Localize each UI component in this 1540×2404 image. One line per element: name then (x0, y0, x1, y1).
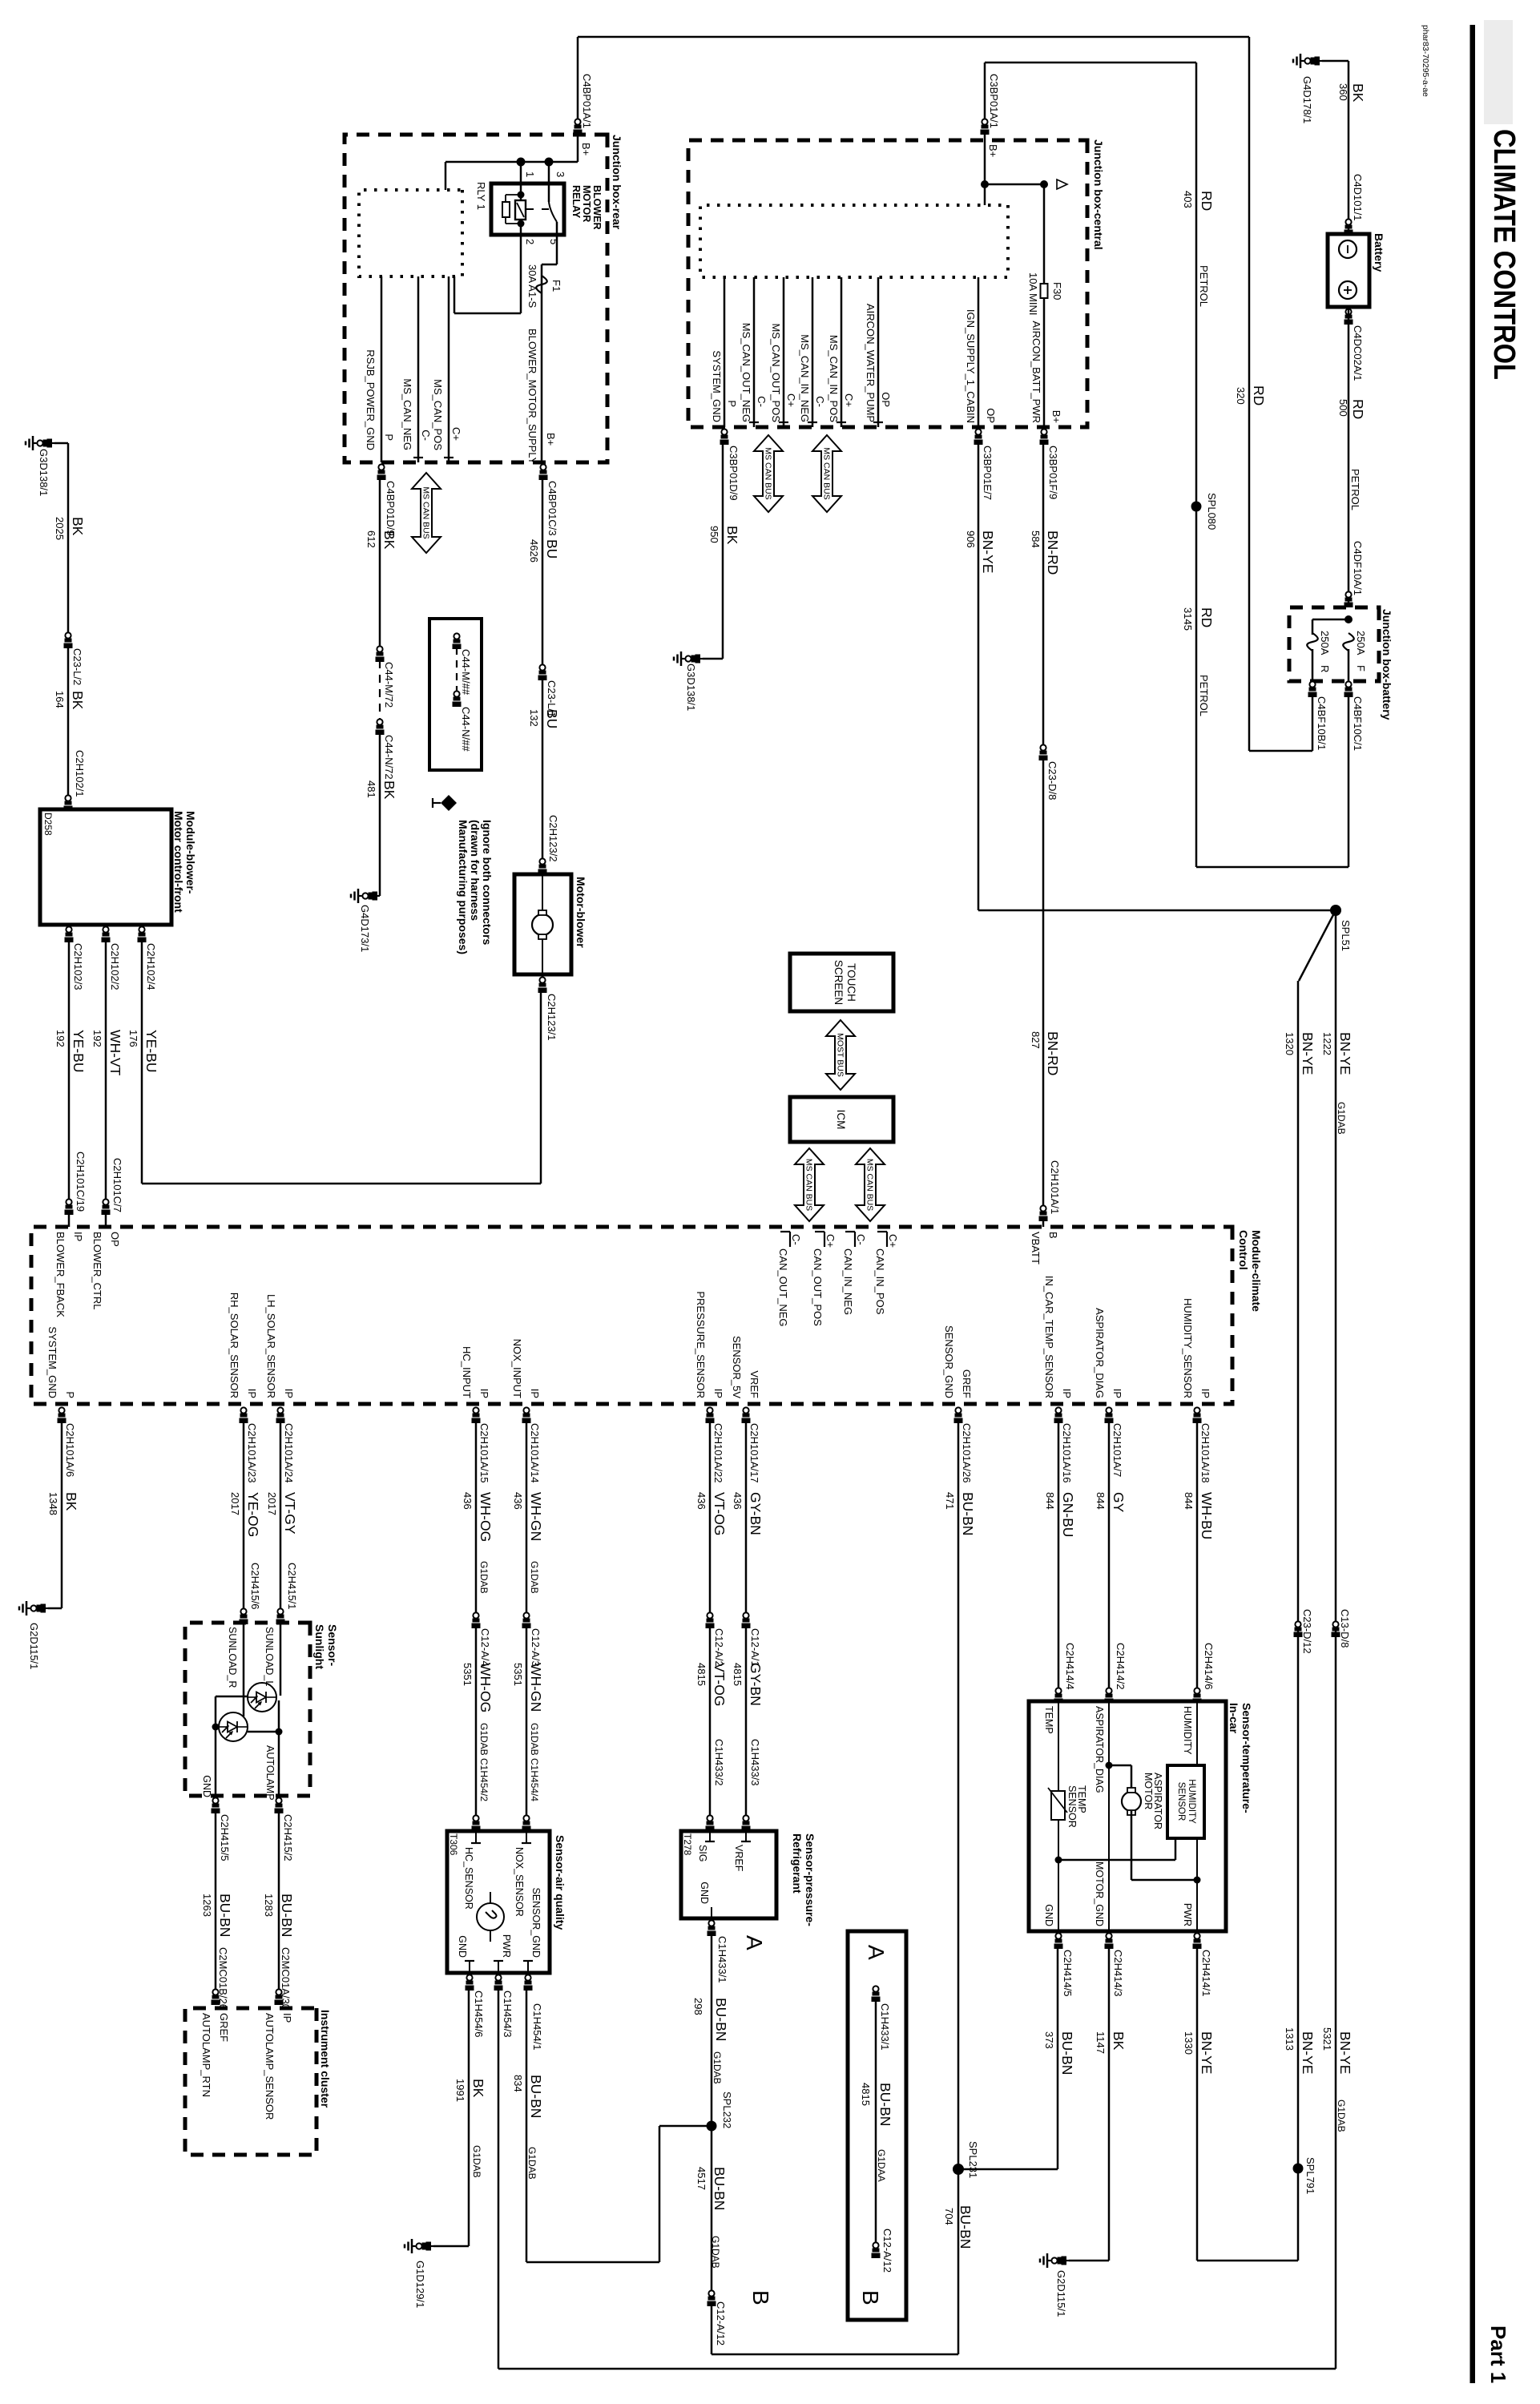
relay coil (520, 162, 522, 200)
connector C4BF10B/1 (1308, 681, 1317, 697)
svg-text:TEMP: TEMP (1043, 1706, 1054, 1734)
wire VT-GY 2017 (LH solar) (280, 1422, 282, 1608)
svg-text:PRESSURE_SENSOR: PRESSURE_SENSOR (695, 1291, 707, 1398)
sensor-sunlight (185, 1623, 310, 1796)
node relay pin3 feed (545, 158, 554, 167)
connector C3BP01D/9 (720, 429, 729, 445)
svg-text:RSJB_POWER_GND: RSJB_POWER_GND (365, 349, 377, 450)
svg-text:C2H102/3: C2H102/3 (72, 943, 84, 990)
svg-text:YE-OG: YE-OG (245, 1492, 261, 1537)
svg-text:SENSOR_5V: SENSOR_5V (731, 1336, 743, 1398)
pin NOX_SENSOR (526, 1831, 527, 1843)
svg-text:RD: RD (1199, 607, 1215, 627)
svg-text:298: 298 (692, 1998, 704, 2015)
svg-text:BLOWER_CTRL: BLOWER_CTRL (91, 1232, 103, 1310)
relay switch (548, 184, 550, 202)
svg-text:BLOWER_MOTOR_SUPPLY: BLOWER_MOTOR_SUPPLY (526, 329, 538, 465)
svg-text:IP: IP (281, 2013, 293, 2023)
svg-text:BK: BK (724, 526, 740, 545)
svg-text:VT-GY: VT-GY (282, 1492, 298, 1535)
svg-text:G4D173/1: G4D173/1 (359, 905, 371, 952)
svg-text:950: 950 (708, 526, 720, 543)
svg-text:132: 132 (528, 709, 540, 727)
svg-text:2: 2 (524, 239, 536, 244)
svg-text:C2H123/2: C2H123/2 (547, 815, 559, 862)
svg-text:CAN_IN_NEG: CAN_IN_NEG (842, 1248, 854, 1315)
connector C4DF10A/1 (1344, 591, 1353, 607)
svg-text:G1DAB C1H454/2: G1DAB C1H454/2 (478, 1723, 490, 1801)
node junction inside box-battery (1344, 615, 1353, 623)
svg-text:C4DF10A/1: C4DF10A/1 (1352, 541, 1364, 595)
svg-text:C2H101A/18: C2H101A/18 (1199, 1423, 1211, 1482)
wire WH-GN 436 (526, 1422, 528, 1612)
ground G4D173/1 (351, 889, 380, 903)
pin GND (refrigerant) (711, 1907, 712, 1918)
svg-text:B+: B+ (580, 143, 592, 155)
svg-text:BU-BN: BU-BN (1059, 2031, 1075, 2075)
module-climate control (31, 1227, 1232, 1404)
svg-text:VBATT: VBATT (1030, 1232, 1042, 1265)
svg-text:GND: GND (201, 1775, 212, 1797)
svg-text:GND: GND (1043, 1904, 1054, 1926)
svg-text:IN_CAR_TEMP_SENSOR: IN_CAR_TEMP_SENSOR (1043, 1276, 1055, 1398)
svg-text:F30: F30 (1051, 282, 1063, 300)
svg-text:C3BP01E/7: C3BP01E/7 (982, 446, 994, 500)
svg-text:5351: 5351 (512, 1663, 524, 1686)
wire BK 950 to ground (722, 443, 724, 659)
svg-text:C23-D/12: C23-D/12 (1301, 1609, 1313, 1654)
svg-text:P: P (383, 434, 395, 441)
legend box ignore both connectors (429, 619, 482, 770)
fuse F 250A (1343, 633, 1354, 651)
pin MS_CAN_OUT_NEG C- (753, 277, 756, 427)
svg-text:360: 360 (1337, 83, 1349, 101)
connector C4D101/1 (1344, 219, 1353, 235)
svg-text:LH_SOLAR_SENSOR: LH_SOLAR_SENSOR (265, 1294, 277, 1398)
svg-text:IP: IP (529, 1389, 541, 1398)
svg-text:MS_CAN_OUT_POS: MS_CAN_OUT_POS (770, 323, 782, 422)
svg-text:C3BP01A/1: C3BP01A/1 (988, 74, 1000, 128)
connector C4BF10C/1 (1344, 681, 1353, 697)
svg-text:ASPIRATOR_DIAG: ASPIRATOR_DIAG (1094, 1706, 1105, 1793)
connector C12-A/12 (view) (872, 2242, 881, 2258)
svg-text:MOST BUS: MOST BUS (836, 1033, 845, 1077)
connector C44-N/72 (376, 719, 385, 735)
svg-text:IP: IP (1061, 1389, 1073, 1398)
svg-text:WH-OG: WH-OG (478, 1663, 494, 1712)
svg-text:481: 481 (365, 780, 377, 798)
svg-text:BU-BN: BU-BN (713, 1998, 729, 2041)
connector C3BP01E/7 (974, 429, 983, 445)
svg-text:IP: IP (478, 1389, 490, 1398)
wire AUTOLAMP (278, 1700, 280, 1796)
svg-text:AUTOLAMP: AUTOLAMP (264, 1745, 276, 1801)
svg-text:C4BP01C/3: C4BP01C/3 (546, 481, 558, 536)
svg-text:SPL080: SPL080 (1206, 493, 1218, 530)
svg-text:C1H433/1: C1H433/1 (716, 1936, 728, 1983)
svg-text:SENSOR_GND: SENSOR_GND (530, 1887, 542, 1958)
svg-text:C3BP01D/9: C3BP01D/9 (728, 446, 740, 501)
svg-text:C+: C+ (450, 427, 462, 441)
svg-text:5351: 5351 (462, 1663, 474, 1686)
svg-text:YE-BU: YE-BU (143, 1030, 159, 1072)
svg-text:C2H101A/7: C2H101A/7 (1111, 1423, 1123, 1477)
svg-text:A: A (742, 1935, 767, 1950)
svg-text:Sensor-: Sensor- (326, 1624, 339, 1666)
svg-text:T278: T278 (682, 1833, 693, 1856)
internal module (dotted) of junction box-rear (359, 190, 462, 276)
svg-text:SPL51: SPL51 (1340, 920, 1352, 951)
svg-text:1: 1 (524, 171, 536, 177)
svg-text:C12-A/2: C12-A/2 (713, 1628, 725, 1667)
pin RSJB_POWER_GND P (381, 276, 383, 462)
svg-text:SUNLOAD_L: SUNLOAD_L (264, 1627, 275, 1686)
wire BK 360 battery negative (1348, 61, 1350, 234)
svg-text:C2H101A/23: C2H101A/23 (246, 1423, 258, 1482)
wire BN-YE 1330 (1196, 1947, 1199, 2261)
pin CAN_OUT_NEG C- (789, 1232, 791, 1247)
svg-text:MS_CAN_OUT_NEG: MS_CAN_OUT_NEG (740, 323, 752, 422)
svg-text:C1H454/1: C1H454/1 (531, 2003, 543, 2051)
svg-text:4626: 4626 (528, 539, 540, 563)
humidity sensor (1196, 1701, 1198, 1765)
svg-text:TOUCH: TOUCH (845, 963, 857, 1002)
svg-text:VT-OG: VT-OG (712, 1492, 728, 1535)
wire YE-OG 2017 (RH solar) (243, 1422, 245, 1608)
svg-text:704: 704 (943, 2208, 955, 2225)
node relay pin1 feed (517, 158, 526, 167)
wire PWR to BN-YE 5321 (498, 1989, 500, 2369)
svg-text:176: 176 (127, 1030, 139, 1047)
svg-text:C1H433/2: C1H433/2 (713, 1739, 725, 1786)
svg-text:C12-A/12: C12-A/12 (715, 2301, 727, 2346)
svg-text:HUMIDITY_SENSOR: HUMIDITY_SENSOR (1182, 1298, 1194, 1398)
svg-text:G1DAB: G1DAB (529, 1561, 540, 1594)
svg-text:WH-OG: WH-OG (478, 1492, 494, 1542)
junction box-battery (1289, 607, 1379, 681)
svg-text:C+: C+ (824, 1234, 837, 1248)
svg-text:SIG: SIG (697, 1845, 708, 1862)
wire GY-BN 436 (745, 1422, 748, 1612)
arrow B+ feed (1057, 179, 1067, 189)
svg-text:F1: F1 (550, 280, 562, 292)
wire BK 1991 to ground G1D129/1 (468, 1989, 470, 2246)
wire BK 1147 to ground G2D115/1 (1108, 1947, 1111, 2261)
ground G3D138/1 (blower) (26, 436, 54, 450)
svg-text:SPL232: SPL232 (721, 2091, 733, 2128)
svg-text:C4D101/1: C4D101/1 (1352, 174, 1364, 221)
svg-text:SPL231: SPL231 (967, 2141, 979, 2178)
svg-text:G2D115/1: G2D115/1 (1055, 2270, 1067, 2317)
relay RLY 1 BLOWER MOTOR RELAY (491, 184, 564, 235)
connector C23-D/12 (1294, 1621, 1303, 1637)
bus arrow MS CAN BUS (ICM in) (795, 1148, 824, 1221)
connector C2H415/2 (275, 1797, 284, 1813)
wire BK 164 (67, 647, 70, 795)
svg-text:584: 584 (1030, 530, 1042, 548)
pin AIRCON_WATER_PUMP (877, 277, 880, 427)
wire BU 4626 (542, 478, 544, 664)
svg-text:ASPIRATOR_DIAG: ASPIRATOR_DIAG (1094, 1308, 1106, 1398)
svg-text:C-: C- (756, 396, 768, 407)
svg-text:Sunlight: Sunlight (313, 1624, 326, 1669)
svg-text:436: 436 (462, 1492, 474, 1510)
svg-text:C2H414/6: C2H414/6 (1203, 1643, 1215, 1690)
svg-text:C4BF10C/1: C4BF10C/1 (1352, 696, 1364, 751)
svg-text:A: A (864, 1945, 889, 1960)
bus arrow MS CAN BUS (central in) (812, 435, 841, 512)
svg-text:VT-OG: VT-OG (712, 1663, 728, 1706)
svg-text:C2H102/4: C2H102/4 (145, 943, 157, 990)
svg-text:1313: 1313 (1284, 2027, 1296, 2051)
wire relay pin2 to internal module (520, 235, 522, 313)
svg-text:MS CAN BUS: MS CAN BUS (764, 447, 773, 499)
svg-text:PETROL: PETROL (1198, 675, 1210, 716)
svg-text:C2H414/5: C2H414/5 (1062, 1950, 1074, 1997)
svg-text:AUTOLAMP_SENSOR: AUTOLAMP_SENSOR (264, 2013, 276, 2120)
svg-text:RD: RD (1350, 399, 1366, 419)
wire BU-BN 373 (1057, 1947, 1059, 2169)
svg-text:Module-climate: Module-climate (1250, 1230, 1263, 1312)
fuse R 250A (1307, 633, 1318, 651)
svg-text:G1DAB C1H454/4: G1DAB C1H454/4 (529, 1723, 540, 1801)
connector C1H433/1 (view) (872, 1986, 881, 2002)
svg-text:WH-VT: WH-VT (107, 1030, 123, 1076)
svg-text:BN-YE: BN-YE (1337, 1032, 1353, 1075)
svg-text:3: 3 (554, 171, 566, 177)
svg-text:Motor control-front: Motor control-front (172, 811, 185, 913)
ICM (790, 1097, 893, 1142)
svg-text:Motor-blower: Motor-blower (574, 877, 587, 948)
svg-text:C1H433/3: C1H433/3 (749, 1739, 761, 1786)
svg-text:SYSTEM_GND: SYSTEM_GND (711, 350, 723, 422)
svg-text:1263: 1263 (201, 1894, 213, 1917)
svg-text:844: 844 (1044, 1492, 1056, 1510)
connector C3BP01A/1 (981, 119, 990, 135)
svg-text:AIRCON_BATT_PWR: AIRCON_BATT_PWR (1030, 321, 1042, 423)
svg-text:PWR: PWR (1182, 1903, 1193, 1926)
svg-text:PETROL: PETROL (1198, 265, 1210, 307)
splice SPL791 (1293, 2164, 1304, 2174)
pin C2H102/3 (65, 926, 74, 942)
svg-text:B+: B+ (545, 433, 557, 446)
pin IGN_SUPPLY_1_CABIN (978, 277, 980, 427)
svg-text:BK: BK (381, 780, 397, 800)
svg-text:Sensor-air quality: Sensor-air quality (554, 1835, 566, 1930)
svg-text:1991: 1991 (454, 2079, 466, 2102)
svg-text:BLOWER_FBACK: BLOWER_FBACK (54, 1232, 67, 1317)
svg-text:B+: B+ (987, 144, 999, 157)
svg-text:BK: BK (70, 691, 86, 710)
svg-text:403: 403 (1182, 191, 1194, 208)
connector C2H102/1 (64, 795, 73, 811)
svg-text:1348: 1348 (47, 1492, 59, 1515)
svg-text:C44-N/##: C44-N/## (460, 707, 472, 752)
svg-text:VREF: VREF (748, 1370, 760, 1398)
svg-text:C2H102/2: C2H102/2 (109, 943, 121, 990)
connector view box A-B (848, 1931, 906, 2320)
svg-text:CAN_IN_POS: CAN_IN_POS (874, 1248, 886, 1315)
instrument cluster (185, 2008, 316, 2155)
svg-text:C23-D/8: C23-D/8 (1046, 761, 1058, 800)
svg-text:SENSOR: SENSOR (1176, 1782, 1186, 1821)
svg-text:192: 192 (54, 1030, 67, 1047)
svg-text:BU-BN: BU-BN (528, 2075, 544, 2118)
wire BN-YE 1222 / BN-YE 5321 G1DAB (1335, 910, 1337, 2369)
svg-text:G3D138/1: G3D138/1 (685, 664, 697, 711)
svg-text:GND: GND (699, 1882, 710, 1904)
svg-text:G1DAB: G1DAB (1336, 2099, 1347, 2132)
link BN-YE 1313 to BN-YE 1330 (1197, 2260, 1298, 2262)
svg-text:G4D178/1: G4D178/1 (1301, 76, 1313, 123)
svg-text:IP: IP (712, 1389, 724, 1398)
wire BU-BN 834 (526, 1989, 528, 2262)
svg-text:C4DC02A/1: C4DC02A/1 (1352, 325, 1364, 381)
bus arrow MOST BUS (826, 1020, 855, 1090)
svg-text:192: 192 (91, 1030, 103, 1047)
svg-text:MOTOR: MOTOR (581, 185, 592, 222)
svg-text:C2H414/4: C2H414/4 (1064, 1643, 1076, 1690)
svg-text:C2H101A/26: C2H101A/26 (961, 1423, 973, 1482)
wire RD 403 / RD 3145 PETROL (1195, 63, 1198, 867)
svg-text:R: R (1319, 665, 1331, 672)
svg-text:In-car: In-car (1228, 1703, 1240, 1734)
wire RD 500 battery positive (1348, 307, 1350, 607)
svg-text:SENSOR: SENSOR (1066, 1785, 1078, 1828)
svg-text:G1DAB: G1DAB (712, 2051, 723, 2084)
connector C4DC02A/1 (1344, 309, 1353, 325)
wire AIRCON_BATT_PWR with fuse F30 (1043, 184, 1046, 427)
wire BK 2025 (54, 442, 68, 445)
svg-text:3145: 3145 (1182, 607, 1194, 631)
svg-text:436: 436 (732, 1492, 744, 1510)
svg-text:RELAY: RELAY (570, 185, 582, 219)
svg-text:Refrigerant: Refrigerant (791, 1833, 804, 1894)
svg-text:C2H101C/7: C2H101C/7 (111, 1158, 123, 1212)
svg-text:HUMIDITY: HUMIDITY (1182, 1706, 1193, 1755)
connector C2H101C/7 (102, 1199, 111, 1215)
junction box-central (688, 140, 1087, 427)
svg-text:1222: 1222 (1321, 1032, 1333, 1055)
node B+ tee (981, 180, 989, 188)
svg-text:844: 844 (1095, 1492, 1107, 1510)
wire YE-BU 176 (141, 941, 143, 1184)
svg-text:GREF: GREF (961, 1369, 973, 1398)
node F30 tee (1040, 180, 1048, 188)
svg-text:MOTOR: MOTOR (1143, 1773, 1154, 1809)
svg-text:BN-YE: BN-YE (1337, 2031, 1353, 2074)
pin C2H102/4 (138, 926, 147, 942)
wire return to sensor-air quality PWR (498, 2368, 1336, 2370)
svg-text:G1DAB: G1DAB (478, 1561, 490, 1594)
svg-text:T306: T306 (448, 1833, 459, 1856)
svg-text:WH-GN: WH-GN (528, 1663, 544, 1712)
wire BK 481 to ground (379, 733, 381, 896)
svg-text:Module-blower-: Module-blower- (184, 811, 197, 894)
svg-text:IP: IP (283, 1389, 295, 1398)
svg-text:C2H414/1: C2H414/1 (1200, 1950, 1212, 1997)
svg-text:B+: B+ (1050, 410, 1062, 423)
svg-text:CLIMATE CONTROL: CLIMATE CONTROL (1487, 129, 1521, 380)
wire BU-BN 298 (711, 1934, 713, 2126)
svg-text:C+: C+ (887, 1234, 899, 1248)
svg-text:BN-YE: BN-YE (980, 530, 996, 573)
svg-text:Instrument cluster: Instrument cluster (319, 2010, 332, 2108)
module-blower-Motor control-front (40, 809, 171, 925)
connector C2H123/1 (538, 977, 547, 993)
svg-text:BK: BK (381, 530, 397, 550)
svg-text:HC_SENSOR: HC_SENSOR (463, 1847, 474, 1910)
svg-text:Junction box-battery: Junction box-battery (1381, 609, 1393, 720)
svg-text:C-: C- (814, 396, 826, 407)
svg-text:Battery: Battery (1373, 233, 1385, 272)
svg-text:C2H101A/17: C2H101A/17 (748, 1423, 760, 1482)
svg-text:C2H102/1: C2H102/1 (74, 750, 86, 797)
svg-text:CAN_OUT_NEG: CAN_OUT_NEG (777, 1248, 789, 1327)
wire B+ inside junction box-rear (577, 133, 579, 162)
svg-text:HUMIDITY: HUMIDITY (1187, 1779, 1196, 1824)
svg-text:C12-A/1: C12-A/1 (749, 1628, 761, 1667)
wire BU-BN 704 (957, 2169, 960, 2354)
svg-text:IP: IP (246, 1389, 258, 1398)
svg-text:C2H415/6: C2H415/6 (249, 1563, 261, 1610)
svg-text:B: B (1047, 1232, 1059, 1239)
svg-text:G1DAB: G1DAB (710, 2236, 721, 2269)
svg-text:MS CAN BUS: MS CAN BUS (804, 1159, 814, 1211)
svg-text:AUTOLAMP_RTN: AUTOLAMP_RTN (200, 2013, 212, 2097)
connector C13-D/8 (1332, 1621, 1340, 1637)
svg-text:PWR: PWR (501, 1934, 512, 1958)
wire GN-BU 844 (in-car temp) (1058, 1422, 1060, 1688)
svg-text:Ignore both connectors: Ignore both connectors (481, 820, 494, 946)
splice SPL232 (707, 2121, 717, 2132)
svg-text:C2H123/1: C2H123/1 (546, 994, 558, 1041)
pin CAN_OUT_POS C+ (824, 1232, 825, 1247)
wire BK 1348 to ground G2D115/1 (61, 1422, 63, 1608)
svg-text:RLY 1: RLY 1 (475, 182, 487, 210)
svg-text:1320: 1320 (1284, 1032, 1296, 1055)
svg-text:OP: OP (985, 408, 997, 423)
svg-text:G2D115/1: G2D115/1 (28, 1623, 40, 1669)
svg-text:YE-BU: YE-BU (71, 1030, 87, 1072)
connector C2H415/5 (212, 1797, 220, 1813)
junction box-rear (345, 135, 607, 462)
svg-text:MOTOR_GND: MOTOR_GND (1094, 1861, 1105, 1926)
internal module (dotted) of junction box-central (700, 205, 1008, 277)
svg-text:IP: IP (1199, 1389, 1211, 1398)
photodiode SUNLOAD_R (243, 1619, 245, 1716)
svg-text:G1DAB: G1DAB (471, 2145, 482, 2178)
svg-text:C12-A/12: C12-A/12 (881, 2229, 893, 2273)
svg-text:BU-BN: BU-BN (960, 1492, 976, 1535)
motor-blower (514, 874, 571, 974)
svg-text:1283: 1283 (263, 1894, 275, 1917)
pin MS_CAN_IN_NEG C- (812, 277, 814, 427)
pin VREF (745, 1831, 747, 1841)
temp sensor thermistor (1058, 1701, 1059, 1931)
wire from C3BP01A/1 to internal module B+ (984, 133, 986, 205)
ground G3D138/1 (central) (674, 651, 703, 666)
wire BLOWER_MOTOR_SUPPLY with fuse F1 30A A1-S (556, 235, 558, 264)
svg-text:30A A1-S: 30A A1-S (526, 264, 538, 309)
svg-text:MS_CAN_IN_NEG: MS_CAN_IN_NEG (799, 334, 811, 422)
HC sensor symbol (490, 1892, 491, 1942)
svg-text:MS CAN BUS: MS CAN BUS (865, 1159, 875, 1211)
diagonal from SPL51 (1299, 910, 1336, 981)
wire BU-BN 298 from refrigerant sensor GND (659, 2125, 712, 2128)
svg-text:250A: 250A (1319, 631, 1331, 655)
svg-text:D258: D258 (42, 813, 54, 836)
